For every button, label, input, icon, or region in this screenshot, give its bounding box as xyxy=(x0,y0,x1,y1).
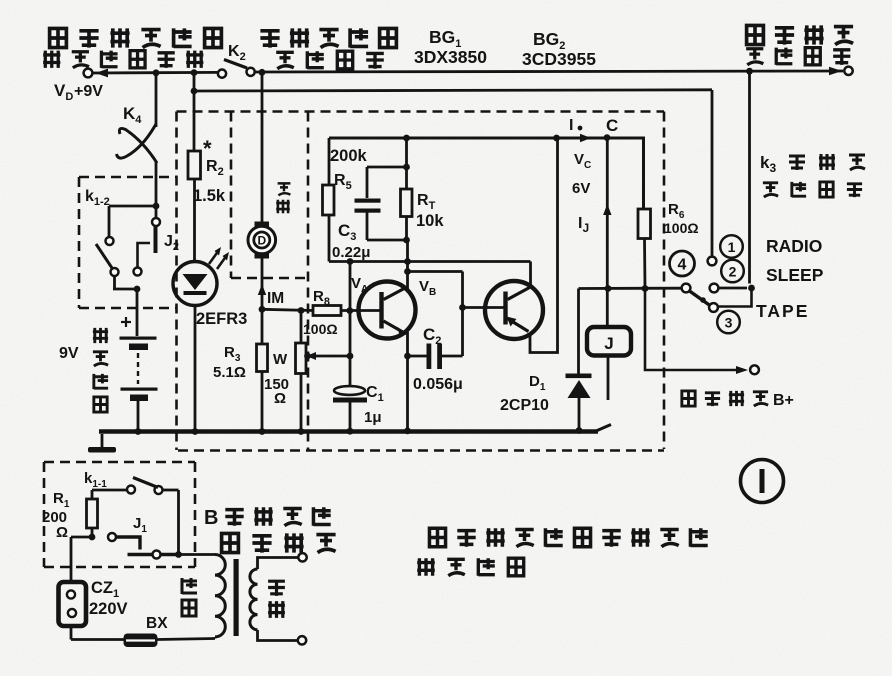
wire R2 to LED xyxy=(193,179,196,262)
label motor (dian ji) xyxy=(278,183,291,195)
wire relay node horizontal xyxy=(579,287,682,290)
svg-text:1μ: 1μ xyxy=(364,409,382,426)
svg-text:C: C xyxy=(606,116,618,135)
transformer core xyxy=(234,559,239,636)
svg-text:220V: 220V xyxy=(89,600,128,618)
label secondary (ci ji) xyxy=(268,581,285,596)
wire from top rail to K4 xyxy=(155,73,158,127)
circled contact numbers xyxy=(720,235,743,258)
wire k1-1 to primary top xyxy=(163,489,179,492)
wire C rail corner to R6 xyxy=(642,138,645,209)
svg-text:2CP10: 2CP10 xyxy=(500,397,549,414)
relay coil J xyxy=(587,327,631,356)
svg-text:3CD3955: 3CD3955 xyxy=(522,49,596,69)
svg-text:3: 3 xyxy=(725,315,733,331)
switch k1-2 xyxy=(153,203,160,210)
resistor R8 100ohm xyxy=(313,306,341,316)
svg-text:6V: 6V xyxy=(572,180,590,197)
terminal arrow to record/play switch xyxy=(829,67,842,75)
svg-text:3DX3850: 3DX3850 xyxy=(414,47,487,67)
svg-text:B+: B+ xyxy=(773,392,794,409)
current arrow Ie xyxy=(580,134,591,142)
wire top rail to R2 xyxy=(193,73,196,151)
resistor RT 10k xyxy=(405,138,408,189)
diode D1 2CP10 xyxy=(577,289,580,374)
wire to BG2 collector xyxy=(529,262,532,288)
wire VB link xyxy=(408,270,463,273)
wire relay bottom stub xyxy=(607,356,610,401)
transformer secondary winding xyxy=(250,569,258,630)
LED light arrows xyxy=(209,250,219,264)
svg-text:IM: IM xyxy=(267,290,284,307)
svg-text:0.056μ: 0.056μ xyxy=(413,376,463,393)
wire fuse to primary bottom xyxy=(158,639,216,640)
svg-text:TAPE: TAPE xyxy=(756,301,809,321)
wire BG2 emitter to C rail xyxy=(530,138,558,353)
wire VB to BG2 base xyxy=(459,304,466,311)
wire R3 to ground rail xyxy=(261,372,264,432)
switch K3 contacts xyxy=(748,285,755,292)
label battery (ji nei dian chi) vertical xyxy=(93,328,108,343)
wire record/play to contact 2 xyxy=(748,71,751,283)
ground symbol xyxy=(101,434,104,447)
svg-text:10k: 10k xyxy=(416,212,444,230)
wire LED to ground rail xyxy=(194,306,197,433)
svg-text:Ω: Ω xyxy=(274,390,286,407)
transistor BG1 3DX3850 xyxy=(359,282,416,339)
svg-text:BX: BX xyxy=(146,615,168,632)
svg-text:Ω: Ω xyxy=(56,524,68,541)
svg-text:2EFR3: 2EFR3 xyxy=(196,310,247,328)
fuse BX xyxy=(124,634,158,648)
wire C3/RT bottom node xyxy=(367,239,407,242)
wire top supply rail right of K2 xyxy=(255,71,844,72)
svg-text:I: I xyxy=(569,117,573,134)
capacitor C3 xyxy=(367,166,407,169)
wire VA vertical xyxy=(349,262,352,357)
resistor R6 100ohm xyxy=(638,209,651,239)
mains socket CZ1 220V xyxy=(59,582,87,626)
label to recorder B+ xyxy=(682,391,695,406)
svg-text:100Ω: 100Ω xyxy=(664,220,699,236)
svg-text:5.1Ω: 5.1Ω xyxy=(213,364,246,381)
svg-text:100Ω: 100Ω xyxy=(303,321,338,337)
wire second rail (motor core power) xyxy=(194,90,712,91)
wire R8 to BG1 base xyxy=(341,309,380,312)
label recorder movement power switch xyxy=(260,31,279,48)
wire from K4 to k1-2 xyxy=(155,161,158,206)
svg-text:1.5k: 1.5k xyxy=(193,187,226,205)
crossover switch K4 xyxy=(117,124,157,158)
svg-text:W: W xyxy=(273,351,288,368)
resistor R2 xyxy=(188,151,201,179)
capacitor C2 0.056u xyxy=(408,355,428,358)
figure number mark xyxy=(741,460,784,503)
wire motor to IM node xyxy=(261,259,264,310)
wire RT node to BG1 collector xyxy=(406,240,409,290)
svg-text:2: 2 xyxy=(729,264,737,280)
svg-text:D: D xyxy=(257,234,266,248)
capacitor C1 1u xyxy=(347,353,354,360)
wire k1-2 to battery xyxy=(113,276,116,289)
wire base node xyxy=(262,309,313,310)
svg-text:J: J xyxy=(604,334,613,353)
node VD output terminal xyxy=(84,69,93,78)
dashed box around R2 and motor (added section) xyxy=(177,110,665,113)
dashed box k1-2 xyxy=(79,176,177,179)
wire top supply rail left of K2 xyxy=(92,71,219,74)
current arrow IJ xyxy=(603,204,611,215)
label primary (chu ji) xyxy=(182,578,197,594)
svg-text:9V: 9V xyxy=(59,345,79,362)
switch K2 xyxy=(218,70,226,78)
potentiometer W xyxy=(300,311,303,344)
svg-text:RADIO: RADIO xyxy=(766,236,822,256)
svg-text:200k: 200k xyxy=(330,147,368,165)
wire BG1 emitter to ground rail xyxy=(406,332,409,431)
resistor R1 200ohm xyxy=(92,489,127,492)
wire R1 to CZ1 xyxy=(71,536,92,539)
svg-text:+9V: +9V xyxy=(74,83,103,100)
svg-text:SLEEP: SLEEP xyxy=(766,265,824,285)
transistor BG2 3CD3955 xyxy=(485,281,543,339)
svg-text:1: 1 xyxy=(728,239,736,255)
dashed box k1-1 xyxy=(44,461,195,464)
wire collector rail xyxy=(329,137,645,140)
dashed box oscillator section xyxy=(307,112,310,451)
transformer primary winding xyxy=(179,553,216,556)
relay contact J2 xyxy=(155,206,158,218)
caption dashed part is added control section xyxy=(429,528,445,546)
svg-text:4: 4 xyxy=(678,257,687,274)
junction dots on ground rail xyxy=(135,428,142,435)
battery 9V internal xyxy=(121,321,131,323)
current arrow IM xyxy=(258,284,266,295)
resistor R5 200k xyxy=(328,138,331,185)
motor D xyxy=(255,222,270,229)
wire C rail to relay J xyxy=(606,138,609,327)
secondary terminals xyxy=(258,558,299,570)
wire to B+ terminal xyxy=(645,289,736,371)
LED 2EFR3 xyxy=(173,262,217,306)
label to recorder DC regulated supply output xyxy=(50,28,67,47)
label to recorder record/play switch xyxy=(747,25,764,44)
wire IM node to R3 xyxy=(261,309,264,344)
relay contact J1 xyxy=(89,534,96,541)
svg-text:B: B xyxy=(204,507,218,529)
ground bus rail xyxy=(99,429,598,434)
resistor R3 xyxy=(257,344,268,372)
wire VA feedback rail xyxy=(329,260,531,263)
wire top rail to motor xyxy=(261,72,264,222)
switch k1-1 xyxy=(127,486,135,494)
W wiper arrow xyxy=(313,355,350,358)
junction node on top rail xyxy=(153,69,160,76)
wire CZ1 to fuse xyxy=(70,626,73,640)
